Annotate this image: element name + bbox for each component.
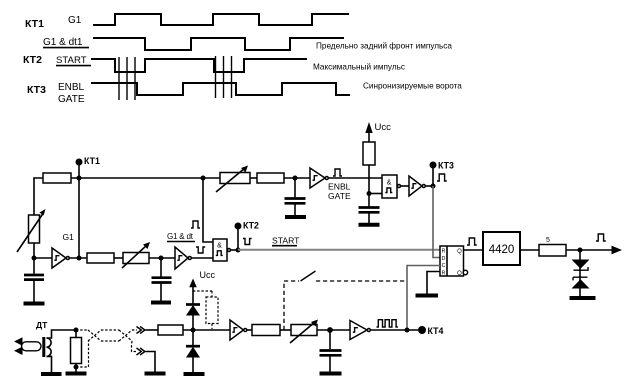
wire from top row node down to gate input	[203, 178, 213, 242]
variable resistor RV4	[290, 320, 318, 344]
transformer winding	[47, 338, 52, 356]
junction sensor bottom	[74, 365, 79, 370]
junction C5 tap	[327, 327, 333, 333]
wire START net (gray)	[238, 249, 440, 251]
output arrow	[612, 246, 623, 255]
wire junction to gate U5 lower input	[369, 193, 382, 195]
wire U8 to R8	[247, 329, 252, 331]
resistor R3	[257, 173, 284, 183]
variable resistor RV3 (top row)	[216, 166, 250, 193]
gate U5 AND-schmitt (KT3)	[382, 175, 401, 198]
wire RV3 to R3	[250, 177, 257, 179]
wire chevron bottom to ground	[146, 352, 156, 372]
ground under R input	[416, 294, 439, 298]
pulse glyph at output	[596, 234, 606, 241]
wire R3 to U4 input	[284, 177, 310, 179]
junction sensor top	[74, 328, 79, 333]
ground under C5	[320, 372, 342, 376]
transformer core bar	[42, 337, 45, 357]
waveform ENBL GATE (row 4)	[91, 83, 350, 95]
junction KT4 riser	[405, 328, 410, 333]
ground under chevron return	[145, 372, 166, 376]
resistor R6 load	[71, 330, 82, 372]
op-amp U6 schmitt inverter output KT3	[409, 176, 425, 196]
wire KT3 down to trigger D input	[433, 186, 440, 258]
wire R8 to RV4	[280, 329, 291, 331]
ground under C2	[151, 301, 171, 305]
op-amp U2 schmitt inverter G1 & dt	[175, 247, 191, 269]
resistor R1 (oscillator feedback)	[43, 173, 71, 183]
svg-text:КТ4: КТ4	[428, 326, 444, 336]
wire 4420 to R5	[520, 249, 539, 251]
pulse glyph high-pulse on gate branch	[191, 221, 200, 228]
resistor R8	[252, 325, 280, 336]
wire gate to U6	[401, 185, 409, 187]
node G1 inverter input	[32, 256, 37, 261]
junction R4/C4/gate input	[367, 191, 372, 196]
zener VD1 (down)	[572, 260, 590, 271]
wire C input (gray riser from KT4)	[407, 266, 440, 331]
pulse glyph low-pulse at KT2	[243, 239, 252, 245]
svg-text:КТ1: КТ1	[25, 18, 44, 30]
junction top row / gate branch	[201, 176, 206, 181]
svg-text:GATE: GATE	[58, 94, 85, 105]
node KT3 terminal	[430, 161, 454, 171]
diode VD4 to ground	[186, 330, 200, 372]
capacitor C2	[152, 258, 172, 301]
waveform G1 & dt1 (row 2)	[93, 38, 344, 50]
wire RV4 to U9	[317, 329, 350, 331]
op-amp U4 schmitt inverter ENBL GATE	[310, 168, 328, 188]
waveform START (row 3)	[91, 59, 307, 72]
sensor head capsule with arrows	[14, 337, 41, 355]
svg-text:ДТ: ДТ	[36, 320, 48, 330]
svg-text:R: R	[442, 270, 446, 276]
chevron connector bottom	[137, 348, 145, 355]
wire U6 to KT3 junction	[426, 185, 433, 187]
ground under VD4	[184, 372, 205, 376]
junction at rail / inverter output	[77, 256, 82, 261]
pulse glyph at U4 output	[333, 169, 342, 176]
svg-text:G1 & dt: G1 & dt	[167, 232, 194, 241]
resistor R4 pull-up	[363, 142, 375, 165]
tick marks group 1	[119, 57, 135, 100]
dashed optional resistor to Ucc	[193, 291, 218, 329]
resistor R7	[158, 325, 183, 335]
capacitor C1	[24, 258, 44, 302]
ground under winding	[41, 372, 62, 376]
ground under C4	[359, 223, 380, 227]
tick marks group 2	[216, 56, 232, 98]
wire U9 to KT4	[371, 329, 418, 331]
svg-text:START: START	[56, 55, 87, 66]
junction U2 input node	[159, 256, 164, 261]
junction diode clamp	[191, 328, 196, 333]
wire U4 output to gate U5	[329, 177, 382, 179]
svg-text:Предельно задний фронт импульс: Предельно задний фронт импульса	[316, 41, 452, 50]
wire chevron top to R7	[146, 329, 159, 331]
svg-text:КТ1: КТ1	[84, 156, 100, 166]
wire R5 to output	[566, 249, 613, 251]
svg-text:Q: Q	[457, 249, 462, 255]
pulse glyph low-pulse at U2 output	[196, 247, 205, 253]
junction zener tap	[578, 248, 583, 253]
svg-text:Ucc: Ucc	[375, 122, 392, 133]
svg-text:Максимальный импульс: Максимальный импульс	[313, 63, 405, 72]
variable resistor RV2	[122, 242, 150, 268]
junction C3 tap	[293, 176, 298, 181]
svg-text:4420: 4420	[489, 244, 515, 256]
wire R4 down across row to C4	[368, 165, 370, 206]
svg-text:C: C	[442, 263, 446, 269]
pulse glyph at KT3	[437, 174, 447, 181]
resistor R2	[87, 253, 114, 263]
node KT2 junction	[236, 248, 241, 253]
variable resistor RV1	[17, 209, 46, 252]
block 4420	[483, 232, 520, 265]
wire zener branch	[579, 250, 581, 296]
svg-text:G1: G1	[63, 232, 75, 242]
svg-text:КТ3: КТ3	[438, 161, 454, 171]
wire Q output to 4420	[464, 249, 484, 251]
power Ucc (bottom)	[189, 270, 215, 304]
svg-text:G1 & dt1: G1 & dt1	[43, 37, 83, 48]
wire R2 to RV2	[114, 257, 123, 259]
label ENBL GATE	[328, 182, 351, 201]
wire R input to ground	[427, 272, 440, 294]
svg-text:&: &	[217, 243, 222, 250]
svg-text:ENBL: ENBL	[58, 82, 85, 93]
svg-text:Ucc: Ucc	[200, 270, 216, 280]
svg-text:КТ3: КТ3	[27, 84, 46, 96]
svg-text:GATE: GATE	[328, 191, 351, 201]
wire up to KT2 terminal	[237, 226, 239, 250]
dashed bypass switch	[284, 271, 407, 330]
svg-text:START: START	[272, 236, 300, 246]
capacitor C4	[359, 208, 380, 224]
wire R7 to U8	[183, 329, 230, 331]
ground under zeners	[570, 296, 596, 300]
wire gate output to START node	[231, 249, 238, 251]
ground under C1	[24, 302, 45, 306]
wire winding top lead	[47, 330, 77, 338]
wire KT1 rail vertical	[78, 162, 80, 258]
svg-text:G1: G1	[68, 15, 82, 26]
junction at rail / top row	[77, 176, 82, 181]
wire RV1 to input node	[33, 243, 35, 258]
svg-text:R: R	[442, 248, 446, 254]
capacitor C3	[285, 178, 306, 216]
svg-text:D: D	[442, 256, 446, 262]
label G1 & dt	[167, 232, 195, 242]
zener VD2 (up)	[572, 277, 590, 288]
svg-text:КТ2: КТ2	[243, 221, 259, 231]
svg-text:КТ2: КТ2	[23, 54, 42, 66]
ground under C3	[285, 215, 306, 219]
chevron connector top	[137, 327, 145, 334]
wire top row from rail to RV3	[71, 177, 220, 179]
resistor R5 value 5	[539, 237, 566, 256]
wire to KT3 terminal	[432, 165, 434, 186]
ground under R6	[66, 372, 87, 376]
svg-text:&: &	[387, 179, 392, 186]
junction KT3	[431, 184, 436, 189]
op-amp U8 schmitt inverter (receiver)	[230, 320, 247, 340]
wire U2 output to gate	[192, 257, 213, 259]
op-amp U1 schmitt inverter G1	[52, 248, 69, 268]
capacitor C5	[320, 330, 342, 372]
node KT4 terminal	[418, 326, 443, 336]
wire node to inverter U1	[34, 257, 52, 259]
wire U1 output to R2	[70, 257, 87, 259]
wire RV2 to node	[149, 257, 175, 259]
wire R1 left to left rail	[34, 178, 43, 215]
node KT2 terminal	[235, 221, 259, 231]
svg-text:Синронизируемые ворота: Синронизируемые ворота	[363, 82, 462, 91]
wire winding bottom lead	[47, 356, 52, 372]
gate U3 AND-schmitt (START former)	[213, 239, 231, 261]
D-trigger U7	[440, 246, 468, 277]
waveform G1 (row 1)	[93, 14, 349, 25]
power Ucc (top)	[365, 122, 391, 142]
op-amp U9 schmitt inverter (KT4)	[350, 321, 370, 340]
svg-text:5: 5	[546, 237, 550, 244]
diode VD3 to Ucc	[186, 305, 200, 331]
twisted pair cable (dashed)	[76, 330, 137, 367]
label START net	[272, 236, 300, 246]
pulse glyph at trigger output	[467, 238, 477, 245]
pulse train glyph at KT4	[377, 320, 398, 327]
node KT1 terminal	[76, 156, 100, 166]
svg-text:Q: Q	[457, 271, 462, 277]
